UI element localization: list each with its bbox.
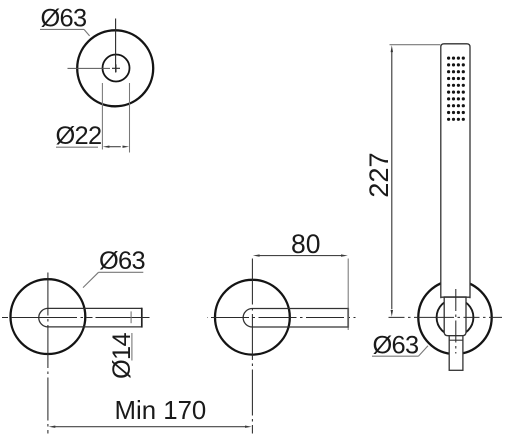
leader line Ø63 bracket — [418, 346, 428, 357]
extension line right (Ø22) — [129, 83, 131, 153]
arrow Min170 left — [49, 426, 56, 428]
pipe inner circle Ø22 — [103, 55, 130, 82]
shower wand body — [441, 44, 470, 298]
left valve horizontal centerline — [2, 317, 150, 319]
svg-text:Min 170: Min 170 — [115, 397, 207, 425]
right valve vertical centerline — [251, 259, 253, 434]
dimension 80 line — [259, 255, 341, 257]
227 dimension line — [391, 51, 393, 309]
right valve handle end cap — [347, 308, 349, 328]
shower hose tube — [449, 336, 463, 371]
right valve horizontal centerline — [207, 317, 356, 319]
arrow 80 right — [341, 254, 348, 256]
svg-text:227: 227 — [363, 152, 394, 197]
wall bracket clip inner circle — [437, 299, 474, 336]
underline of Ø63 left valve — [99, 271, 144, 273]
vertical centerline — [115, 19, 117, 73]
left valve vertical centerline — [47, 272, 49, 434]
hose collar divider line — [449, 339, 463, 341]
underline of Ø22 — [56, 146, 98, 148]
right valve handle lever — [243, 309, 348, 328]
spray face dot grid — [447, 57, 465, 121]
bracket holder block — [444, 297, 466, 336]
right valve escutcheon circle — [215, 280, 290, 355]
underline of Ø63 bracket — [372, 355, 418, 357]
underline of Ø63 — [40, 28, 84, 30]
horizontal centerline — [68, 67, 111, 69]
dimension line Ø22 — [108, 146, 121, 148]
svg-text:Ø63: Ø63 — [99, 247, 145, 275]
svg-text:Ø22: Ø22 — [56, 122, 102, 150]
leader line Ø63 — [84, 29, 90, 36]
leader line Ø63 left valve — [83, 272, 99, 287]
left valve handle lever — [39, 308, 142, 327]
arrow Min170 right — [245, 426, 252, 428]
arrow Ø22 right — [123, 146, 130, 148]
arrow Ø22 left — [103, 146, 110, 148]
extension line left (Ø22) — [101, 83, 103, 150]
dimension Min 170 line — [55, 426, 246, 428]
left valve escutcheon circle — [11, 279, 86, 354]
arrow 80 left — [253, 254, 260, 256]
left valve handle end cap — [141, 308, 143, 328]
Ø14 leader tick through handle — [130, 311, 132, 323]
svg-text:80: 80 — [291, 229, 320, 259]
svg-text:Ø63: Ø63 — [41, 5, 87, 33]
center cross — [112, 64, 120, 72]
arrow 227 bottom — [391, 310, 393, 317]
escutcheon outer circle Ø63 — [77, 30, 153, 106]
extension line 80 right — [347, 259, 349, 331]
arrow 227 top — [391, 45, 393, 52]
svg-text:Ø63: Ø63 — [373, 332, 419, 360]
wand bottom edge over holder — [441, 296, 470, 298]
bracket vertical centerline — [455, 287, 457, 354]
underline of Ø14 — [131, 333, 133, 361]
wall bracket outer circle Ø63 — [418, 281, 491, 354]
227 top extension line — [390, 44, 441, 46]
bracket horizontal centerline — [389, 316, 503, 318]
